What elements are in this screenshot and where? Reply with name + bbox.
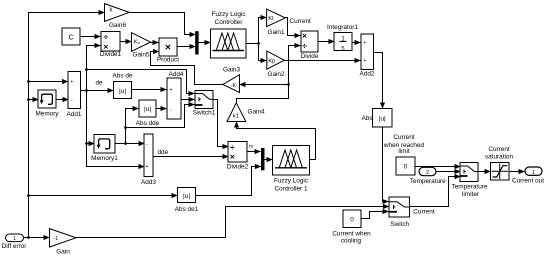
integrator Integrator1 [327, 24, 358, 51]
wire rail branch to Abs de1 [29, 195, 178, 197]
wire Current when reached limit to Temperature limiter first input [415, 166, 461, 168]
wire branch to Switch1 third input [126, 105, 195, 128]
abs Abs dde [136, 100, 160, 127]
svg-text:Divide2: Divide2 [227, 164, 249, 171]
svg-text:+: + [363, 58, 366, 64]
gain Gain6 [105, 4, 130, 30]
svg-text:Gain6: Gain6 [109, 22, 126, 29]
svg-text:-1: -1 [54, 236, 59, 242]
wire Fuzzy Logic Controller 1 output loop to Gain4 input [237, 122, 316, 160]
svg-text:Divide: Divide [301, 53, 319, 60]
svg-text:×: × [302, 31, 307, 41]
svg-text:Controller: Controller [215, 19, 244, 26]
svg-text:cooling: cooling [341, 237, 362, 244]
junction node de to Switch1 branch [85, 68, 88, 71]
svg-text:Kp: Kp [268, 59, 275, 65]
wire Divide2 output to Mux1 [247, 151, 261, 153]
sum Add4 [167, 71, 184, 119]
svg-text:Gain2: Gain2 [267, 71, 284, 78]
wire Mux output to Fuzzy Logic Controller [199, 42, 211, 44]
svg-text:Add1: Add1 [67, 111, 82, 118]
inport Temperature [410, 167, 446, 185]
mux Mux1 [261, 148, 265, 170]
wire Abs de1 output to Mux1 second input [196, 167, 262, 196]
svg-text:÷: ÷ [230, 142, 235, 152]
svg-text:Gain5: Gain5 [132, 52, 149, 59]
divide Divide1 [100, 32, 122, 59]
svg-text:Add3: Add3 [141, 179, 156, 186]
sum Add2 [360, 34, 375, 78]
wire Product output to Mux second input [177, 46, 196, 48]
svg-text:+: + [70, 79, 73, 85]
wire C to Divide1 [81, 36, 101, 38]
wire de branch to Memory1 [87, 143, 95, 145]
svg-text:saturation: saturation [485, 154, 514, 161]
svg-text:Current: Current [290, 18, 312, 25]
svg-text:×: × [165, 41, 171, 53]
wire de node to Divide1 times input [87, 46, 101, 91]
svg-text:×: × [230, 152, 235, 162]
inport Diff error [2, 234, 28, 250]
wire Abs de output to Add4 plus [132, 89, 167, 91]
wire dde Add3 output to Divide2 times [153, 156, 229, 158]
divide Divide [301, 31, 319, 60]
gain Gain5 [132, 33, 151, 59]
divide Divide2 [227, 142, 249, 171]
abs Abs de1 [175, 188, 199, 214]
wire Fuzzy Logic Controller output branch [247, 43, 259, 45]
switch Switch1 [193, 91, 216, 117]
svg-text:Controller 1: Controller 1 [274, 185, 307, 192]
svg-text:Integrator1: Integrator1 [327, 24, 358, 31]
wire Memory1 net riser to Abs dde input [126, 109, 139, 144]
svg-text:+: + [363, 41, 366, 47]
junction on riser to Switch1 third input [124, 126, 127, 129]
svg-text:KI: KI [268, 16, 274, 22]
wire Gain output to Switch second input [76, 207, 389, 238]
junction node de at Add1 output [85, 89, 88, 92]
svg-text:Memory1: Memory1 [91, 155, 118, 162]
svg-text:Temperature: Temperature [410, 178, 446, 185]
wire Divide output to Integrator1 [319, 41, 335, 43]
wire Temperature inport to Temperature limiter second input [437, 171, 461, 173]
wire Abs dde output to Add4 minus [157, 108, 167, 110]
wire branch down to Gain2 [259, 44, 267, 61]
svg-text:0: 0 [350, 217, 354, 224]
svg-text:de: de [96, 79, 104, 86]
switch Temperature limiter [452, 163, 488, 199]
wire Gain5 output to Product first input [151, 42, 159, 44]
wire Current when cooling to Switch third input [361, 212, 389, 219]
saturation Current saturation [485, 146, 514, 180]
gain Gain1 [267, 9, 286, 36]
svg-text:Current out: Current out [512, 178, 544, 185]
outport Current out [512, 167, 544, 185]
wire Diff error to Gain [24, 237, 50, 239]
svg-text:|u|: |u| [183, 193, 190, 200]
wire Gain2 output to Add2 second input [285, 60, 361, 62]
constant Current when cooling [332, 210, 371, 244]
svg-text:+: + [170, 88, 173, 94]
junction on rail at Add1 branch [27, 80, 30, 83]
wire Add4 output to Switch1 control [181, 99, 195, 101]
svg-text:Gain4: Gain4 [248, 108, 265, 115]
svg-text:limiter: limiter [462, 191, 480, 198]
svg-text:e: e [138, 41, 140, 45]
svg-text:1: 1 [532, 170, 535, 176]
svg-text:Fuzzy Logic: Fuzzy Logic [211, 11, 246, 18]
svg-text:÷: ÷ [103, 32, 108, 42]
abs Abs [362, 109, 393, 128]
gain Gain2 [267, 51, 285, 78]
sum Add3 [141, 134, 156, 186]
product Product [157, 38, 179, 64]
fuzzy logic controller U2 [273, 146, 310, 193]
svg-text:Add4: Add4 [169, 71, 184, 78]
svg-text:2: 2 [426, 170, 429, 176]
wire Temperature limiter output to Current saturation [479, 171, 491, 173]
sum Add1 [67, 71, 82, 118]
svg-text:Add2: Add2 [360, 71, 375, 78]
wire Gain1 output Current to Divide times [286, 18, 301, 36]
wire Current saturation output to Current out [509, 171, 525, 173]
svg-text:+: + [146, 164, 149, 170]
svg-text:limit: limit [398, 148, 410, 155]
wire Gain6 output to Mux first input [130, 13, 196, 35]
svg-text:Abs: Abs [362, 115, 373, 122]
svg-text:Memory: Memory [35, 110, 59, 117]
svg-text:1: 1 [13, 236, 16, 242]
wire Divide1 output to Gain5 [121, 41, 132, 43]
svg-text:Gain3: Gain3 [223, 66, 240, 73]
switch Switch [389, 197, 410, 228]
wire de branch to Switch1 first input [87, 70, 195, 94]
svg-text:0: 0 [404, 164, 408, 171]
svg-text:Switch: Switch [390, 221, 409, 228]
junction node de at Memory1 branch [85, 142, 88, 145]
svg-text:Temperature: Temperature [452, 183, 488, 190]
junction on rail at Diff error wire [27, 236, 30, 239]
svg-text:1: 1 [341, 36, 345, 43]
svg-text:Gain: Gain [56, 249, 70, 256]
svg-text:s: s [341, 44, 345, 51]
svg-text:Abs de: Abs de [113, 73, 133, 80]
svg-text:Switch1: Switch1 [193, 110, 216, 117]
memory Memory [35, 90, 59, 117]
junction on rail at Memory branch [27, 98, 30, 101]
wire Memory output to Add1 minus [57, 99, 69, 101]
svg-text:Product: Product [157, 57, 179, 64]
wire rail branch to Memory [29, 99, 39, 101]
gain Gain4 [227, 103, 265, 122]
constant Current when reached limit [383, 134, 425, 175]
svg-text:Fuzzy Logic: Fuzzy Logic [274, 178, 309, 185]
junction on Memory1 output wire [124, 142, 127, 145]
svg-text:Current: Current [413, 209, 435, 216]
wire Switch output Current to Temperature limiter third input [410, 177, 461, 207]
junction at Fuzzy Logic Controller output [257, 42, 260, 45]
mux Mux [195, 31, 198, 54]
wire Add2 output down to Abs [374, 53, 383, 109]
wire branch up to Gain1 [259, 18, 267, 44]
svg-text:×: × [103, 41, 108, 51]
junction on rail at Abs de1 branch [27, 194, 30, 197]
svg-text:Gain1: Gain1 [267, 29, 284, 36]
wire Add1 output de [81, 90, 114, 92]
gain Gain3 [223, 66, 241, 92]
wire Memory1 output to Add3 minus [115, 143, 145, 145]
memory Memory1 [91, 134, 118, 162]
wire Abs output down to Switch first input [383, 127, 389, 202]
svg-text:|u|: |u| [144, 106, 151, 113]
svg-text:|u|: |u| [119, 88, 126, 95]
svg-text:Abs dde: Abs dde [136, 120, 160, 127]
fuzzy logic controller U1 [211, 11, 247, 58]
svg-text:Abs de1: Abs de1 [175, 206, 199, 213]
svg-text:dde: dde [158, 149, 169, 156]
svg-text:Divide1: Divide1 [100, 51, 122, 58]
svg-text:|u|: |u| [379, 116, 386, 123]
svg-text:C: C [68, 34, 73, 41]
svg-text:Current: Current [488, 146, 510, 153]
svg-text:-K-: -K- [231, 83, 238, 89]
svg-text:k1: k1 [233, 113, 239, 119]
wire Integrator1 output to Add2 first input [353, 42, 361, 44]
wire Switch1 output to Divide2 divide [213, 100, 229, 147]
wire Gain3 output to Product second input [151, 52, 224, 85]
gain Gain [50, 229, 77, 256]
svg-text:÷: ÷ [302, 40, 307, 50]
svg-text:Current: Current [393, 134, 415, 141]
constant C [62, 28, 80, 45]
wire branch to Gain3 input [240, 84, 289, 86]
wire Gain4 output up to Divide divide input [237, 46, 301, 103]
wire rail branch to Add1 plus [29, 81, 69, 83]
wire de down to Add3 plus input [87, 91, 145, 167]
svg-text:rv: rv [249, 144, 254, 150]
wire Mux1 output to Fuzzy Logic Controller 1 [265, 159, 273, 161]
wire left rail from Diff error up to Gain6 [29, 13, 105, 238]
svg-text:Diff error: Diff error [2, 243, 28, 250]
abs Abs de [113, 73, 133, 99]
junction on Gain4 output riser at Gain3 branch [287, 83, 290, 86]
